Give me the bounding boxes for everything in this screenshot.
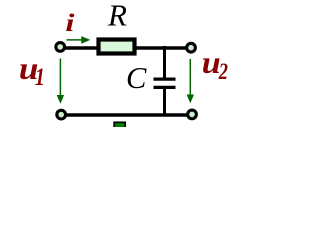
svg-text:i: i: [65, 10, 74, 38]
svg-text:2: 2: [218, 58, 228, 85]
svg-text:R: R: [107, 0, 127, 33]
svg-text:C: C: [126, 61, 147, 95]
svg-text:1: 1: [35, 63, 45, 91]
svg-text:u: u: [202, 46, 221, 81]
